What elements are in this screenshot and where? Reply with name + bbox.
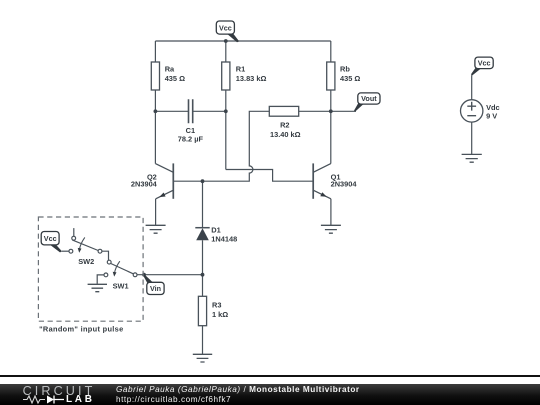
svg-text:Ra: Ra [165, 65, 175, 74]
capacitor C1 [178, 99, 204, 143]
svg-text:1 kΩ: 1 kΩ [212, 310, 228, 319]
ground under Vdc [462, 154, 482, 162]
dashed box random input pulse [38, 217, 143, 334]
voltage source V1 Vdc [461, 100, 500, 122]
svg-text:R2: R2 [280, 121, 289, 130]
wire Vcc flag to SW2 [62, 250, 69, 252]
ground under Q2 [146, 225, 166, 233]
wire Q1 emitter drop [330, 199, 332, 225]
svg-text:D1: D1 [211, 226, 220, 235]
svg-text:Vin: Vin [150, 284, 161, 293]
resistor R3 [198, 296, 228, 325]
wire C1 left [155, 110, 188, 112]
ground in switch box [88, 284, 107, 291]
wire Q2 emitter drop [155, 199, 157, 225]
resistor R2 [269, 106, 300, 138]
footer credit line [116, 385, 360, 394]
CircuitLab logo glyph [23, 394, 66, 405]
transistor Q1 [313, 163, 357, 198]
svg-text:R3: R3 [212, 300, 221, 309]
junction D1 / R3 / Vin [201, 273, 205, 277]
resistor Ra [151, 62, 185, 90]
wire R1 bottom [225, 90, 227, 170]
diode D1 [195, 226, 237, 244]
wire Ra top drop [154, 41, 156, 62]
wire R2 left leg with hop to Q2 base [173, 111, 269, 181]
svg-text:2N3904: 2N3904 [331, 180, 358, 189]
CircuitLab logo text CIRCUIT [23, 384, 96, 398]
transistor Q2 [131, 163, 173, 198]
svg-text:Vcc: Vcc [478, 59, 491, 68]
wire R3 bottom [202, 326, 204, 354]
footer url line [116, 395, 231, 404]
svg-text:13.40 kΩ: 13.40 kΩ [270, 130, 301, 139]
wire D1 branch [202, 181, 204, 296]
svg-text:13.83 kΩ: 13.83 kΩ [236, 74, 267, 83]
svg-text:Vcc: Vcc [44, 234, 57, 243]
junction Q2 base / D1 [201, 179, 205, 183]
svg-text:435 Ω: 435 Ω [165, 74, 185, 83]
wire C1 right [193, 110, 226, 112]
wire Vcc top rail [155, 40, 330, 42]
ground under R3 [193, 354, 212, 362]
wire R1 to Q1 base [226, 170, 313, 182]
wire R1 top drop [225, 41, 227, 62]
flag Vcc left [41, 232, 62, 253]
switch SW1 [104, 260, 137, 290]
svg-text:SW1: SW1 [113, 282, 129, 291]
flag Vin [143, 274, 164, 294]
junction Ra / C1 / Q2 collector [154, 109, 158, 113]
resistor Rb [327, 62, 361, 90]
wire SW2 open stub [73, 228, 75, 236]
svg-text:435 Ω: 435 Ω [340, 74, 360, 83]
svg-text:Vcc: Vcc [219, 23, 232, 32]
wire SW1 ground stub [97, 275, 104, 284]
wire Vout stub [331, 110, 356, 112]
junction Rb / R2 / Vout / Q1 collector [329, 109, 333, 113]
svg-text:R1: R1 [236, 65, 245, 74]
wire Vdc top [471, 75, 473, 100]
wire Vdc bottom [471, 122, 473, 154]
switch SW2 [69, 236, 102, 266]
svg-text:78.2 µF: 78.2 µF [178, 134, 204, 143]
resistor R1 [222, 62, 267, 90]
wire Vin horizontal [137, 274, 203, 276]
wire R2 right [299, 110, 331, 112]
footer black bar [0, 384, 540, 405]
wire Rb top drop [330, 41, 332, 62]
svg-text:9 V: 9 V [486, 112, 497, 121]
junction R1 / C1 / Q1 base net [224, 109, 228, 113]
junction Vcc rail / R1 [224, 39, 228, 43]
svg-text:SW2: SW2 [78, 257, 94, 266]
junction Vin flag attach [142, 273, 146, 277]
wire SW2 to SW1 [102, 251, 109, 260]
CircuitLab logo text LAB [66, 394, 95, 405]
svg-text:"Random" input pulse: "Random" input pulse [39, 325, 123, 334]
flag Vcc top [216, 21, 239, 42]
footer divider rule [0, 375, 540, 377]
wire Ra bottom to Q2 collector [154, 90, 156, 164]
svg-text:Rb: Rb [340, 65, 350, 74]
svg-text:Vout: Vout [361, 94, 377, 103]
ground under Q1 [321, 225, 341, 233]
wire Rb bottom to Q1 collector [330, 90, 332, 164]
flag Vout [354, 93, 380, 112]
svg-text:1N4148: 1N4148 [211, 235, 237, 244]
flag Vcc right [471, 57, 493, 76]
svg-text:2N3904: 2N3904 [131, 180, 158, 189]
